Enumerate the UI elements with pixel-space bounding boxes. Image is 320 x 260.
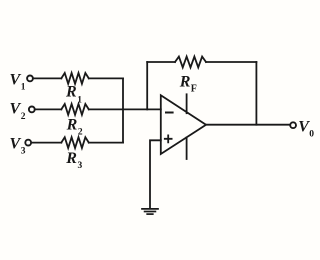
svg-text:R: R xyxy=(65,150,77,167)
wire feedback left vertical xyxy=(146,62,148,109)
wire summing bus vertical xyxy=(122,78,124,142)
terminal V0 circle xyxy=(290,122,296,128)
label V3 xyxy=(10,135,26,156)
svg-text:1: 1 xyxy=(77,95,82,105)
svg-text:R: R xyxy=(179,74,191,91)
svg-text:2: 2 xyxy=(78,128,83,138)
svg-text:2: 2 xyxy=(21,112,26,122)
wire feedback right vertical to output xyxy=(255,62,257,125)
wire feedback top right xyxy=(206,61,256,63)
wire V3 to R3 xyxy=(32,142,62,144)
wire feedback top left xyxy=(147,61,175,63)
wire R2 to op-amp inverting input xyxy=(89,108,161,110)
wire R1 to bus xyxy=(89,77,123,79)
label V2 xyxy=(10,100,26,122)
wire R3 to bus xyxy=(89,142,123,144)
op-amp inverting input minus symbol xyxy=(166,112,173,114)
ground xyxy=(142,209,158,214)
op-amp negative supply pin xyxy=(186,138,188,160)
resistor R3 xyxy=(61,137,89,148)
svg-text:0: 0 xyxy=(309,130,314,140)
wire non-inverting input to ground xyxy=(150,140,161,208)
svg-text:R: R xyxy=(66,117,78,134)
terminal V2 circle xyxy=(29,107,35,113)
label R1 xyxy=(65,84,82,106)
op-amp positive supply pin xyxy=(186,94,188,113)
svg-text:V: V xyxy=(10,135,22,152)
wire V2 to R2 xyxy=(35,108,61,110)
op-amp non-inverting input plus symbol xyxy=(165,135,172,142)
op-amp U1 triangle xyxy=(161,95,206,154)
svg-text:1: 1 xyxy=(21,83,26,93)
terminal V3 circle xyxy=(25,140,31,146)
label V1 xyxy=(10,71,26,92)
wire op-amp output xyxy=(206,124,290,126)
resistor R2 xyxy=(61,104,89,115)
wire V1 to R1 xyxy=(33,77,61,79)
svg-text:3: 3 xyxy=(21,147,26,157)
label R3 xyxy=(65,150,82,171)
label V0 xyxy=(298,118,314,139)
label RF xyxy=(179,74,197,95)
resistor RF xyxy=(175,57,206,68)
terminal V1 circle xyxy=(27,76,33,82)
label R2 xyxy=(66,117,83,138)
svg-text:3: 3 xyxy=(78,161,83,171)
svg-text:F: F xyxy=(191,84,197,95)
svg-text:V: V xyxy=(10,71,22,88)
resistor R1 xyxy=(61,73,89,84)
svg-text:R: R xyxy=(65,84,77,101)
svg-text:V: V xyxy=(10,100,22,117)
